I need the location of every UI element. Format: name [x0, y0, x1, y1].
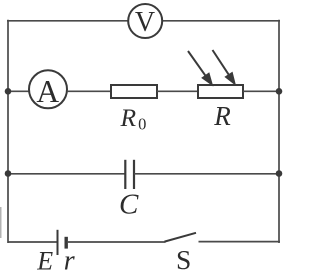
wire top-right segment: [162, 20, 280, 22]
wire left vertical: [7, 20, 9, 243]
battery positive plate (long): [57, 230, 59, 255]
wire capacitor branch left: [8, 173, 125, 175]
wire switch to bottom-right corner: [199, 241, 281, 243]
svg-text:S: S: [176, 244, 191, 273]
scan artifact left edge: [0, 207, 2, 238]
photoresistor R body: [198, 85, 243, 98]
wire bottom-left segment: [8, 241, 57, 243]
svg-text:R: R: [213, 101, 231, 131]
voltmeter U-V circle: [128, 4, 162, 38]
wire R to right rail: [243, 90, 279, 92]
svg-text:V: V: [135, 7, 155, 38]
switch S blade: [165, 233, 197, 242]
wire top-left segment: [7, 20, 128, 22]
wire battery to switch: [68, 241, 166, 243]
capacitor C right plate: [133, 160, 135, 189]
wire R0 to R: [157, 90, 198, 92]
svg-text:E: E: [36, 247, 53, 273]
resistor R0 body: [111, 85, 157, 98]
node left lower junction: [5, 170, 12, 177]
wire ammeter to R0: [67, 90, 111, 92]
svg-text:A: A: [36, 74, 59, 109]
light arrow 1 on photoresistor: [188, 51, 212, 84]
node right upper junction: [276, 88, 283, 95]
light arrow 2 on photoresistor: [213, 50, 235, 84]
wire row2 left (node to ammeter): [8, 90, 30, 92]
battery negative plate (short thick): [64, 237, 67, 249]
ammeter U-A circle: [29, 70, 67, 108]
wire capacitor branch right: [134, 173, 279, 175]
svg-text:r: r: [64, 246, 75, 273]
capacitor C left plate: [124, 160, 126, 189]
wire right vertical: [278, 20, 280, 243]
node left upper junction: [5, 88, 12, 95]
svg-text:C: C: [119, 189, 139, 221]
svg-text:R0: R0: [120, 103, 147, 134]
node right lower junction: [276, 170, 283, 177]
